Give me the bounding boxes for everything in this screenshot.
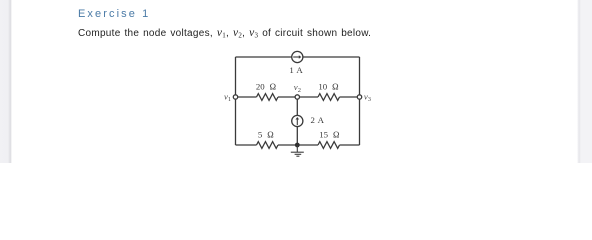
junction dot bottom center (295, 143, 300, 148)
svg-text:2 A: 2 A (311, 115, 325, 125)
right page gutter (577, 0, 592, 163)
svg-text:5 Ω: 5 Ω (258, 130, 274, 140)
wire top-right segment (303, 56, 360, 58)
wire bottom right (340, 144, 360, 146)
svg-text:v1: v1 (224, 91, 231, 103)
ground (291, 145, 304, 156)
wire left side (235, 57, 237, 145)
left page gutter (0, 0, 12, 163)
svg-text:15 Ω: 15 Ω (319, 130, 340, 140)
problem statement (78, 27, 371, 39)
heading Exercise 1 (78, 8, 150, 20)
svg-text:1 A: 1 A (289, 65, 303, 75)
svg-text:v3: v3 (364, 91, 371, 103)
resistor R1 20ohm zigzag (257, 94, 278, 101)
wire bottom left (236, 144, 257, 146)
wire right side (359, 57, 361, 145)
wire bottom center (278, 144, 318, 146)
wire middle left (236, 96, 257, 98)
current source I2 (2 A) (292, 115, 303, 126)
current source I1 (1 A) (292, 51, 303, 62)
node v2 (295, 95, 299, 99)
wire center vertical lower (296, 127, 298, 145)
node v3 (357, 95, 361, 99)
svg-text:v2: v2 (294, 82, 301, 94)
wire middle right (340, 96, 360, 98)
wire top-left segment (236, 56, 292, 58)
node v1 (233, 95, 237, 99)
resistor R4 15ohm zigzag (318, 142, 339, 149)
resistor R3 5ohm zigzag (257, 142, 278, 149)
wire center vertical upper (296, 97, 298, 115)
svg-text:10 Ω: 10 Ω (318, 82, 339, 92)
wire middle center (278, 96, 318, 98)
svg-text:20 Ω: 20 Ω (256, 82, 277, 92)
resistor R2 10ohm zigzag (318, 94, 339, 101)
